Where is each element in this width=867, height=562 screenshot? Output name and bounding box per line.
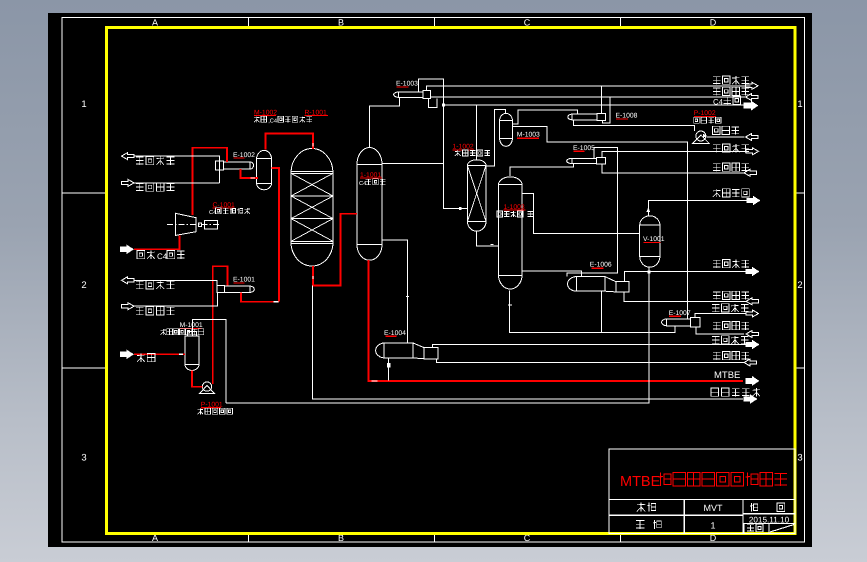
tank M-1001 bottom dome <box>185 364 199 370</box>
label 循环回水 right 4 <box>712 304 720 306</box>
column T-1002 <box>466 165 468 221</box>
red pipe T-1001 bottoms MTBE <box>368 260 743 381</box>
pipe E-1006 head to V-1001 bottoms and return header <box>624 272 746 282</box>
label 循环给水 right 2 <box>713 163 721 165</box>
svg-text:3: 3 <box>81 453 86 464</box>
label M-1003 underline <box>517 137 539 139</box>
label M-1002/R-1001 desc 甲醇,C4馏分混合器 <box>256 116 258 122</box>
pipe E-1005 cooling supply <box>602 164 744 173</box>
arrow 混合C4馏分 feed <box>121 245 134 253</box>
pipe E-1007 head top cooling <box>695 314 746 318</box>
node dot on T-1002 feed <box>459 207 462 210</box>
heat exchanger E-1008 <box>572 114 597 120</box>
label 循环给水 right 1 <box>713 87 721 89</box>
pump P-1002 casing <box>696 131 706 141</box>
label R-1001 underline <box>305 115 329 117</box>
heat exchanger E-1002 <box>224 162 250 169</box>
reactor R-1001 packing band3 <box>291 219 333 242</box>
pipe E-1003 cooling return <box>427 86 751 90</box>
label 循环给水 right 3 <box>713 291 721 293</box>
title block divider date row <box>743 513 795 515</box>
title cell 比例 <box>747 524 754 526</box>
pipe T-1003 bottoms <box>510 290 676 332</box>
zone tick left <box>62 192 107 194</box>
arrow 循环给水 right 2 <box>744 169 757 176</box>
white tick on E-1004 inlet <box>406 296 409 298</box>
white break tick on T-1002 bottoms <box>491 243 494 245</box>
arrow 循环给水 right 3 <box>746 298 759 305</box>
white break tick on MTBE line <box>372 380 378 382</box>
red pipe C4 feed to compressor <box>134 235 180 249</box>
label 软化水 <box>713 126 721 134</box>
svg-text:D: D <box>710 18 717 28</box>
tank M-1001 collar <box>188 332 197 337</box>
label E-1005 underline <box>574 150 585 152</box>
pump P-1002 base <box>693 135 710 143</box>
pipe cooling water supply E-1002 <box>134 182 220 184</box>
label T-1003 desc 共沸精馏塔 <box>497 211 503 217</box>
label V-1001 underline <box>644 241 661 243</box>
svg-text:C4: C4 <box>209 210 216 216</box>
pipe E-1004 outlet to MTBE line <box>388 358 390 381</box>
pipe E-1007 head bottom cooling <box>696 327 744 334</box>
red pipe compressor discharge to E-1002 <box>193 148 228 215</box>
zone tick right <box>795 367 805 369</box>
heat exchanger E-1004 taper <box>413 343 424 348</box>
yellow drawing border <box>107 28 796 534</box>
arrow MTBE <box>746 377 759 385</box>
red pipe R-1001 bottoms to T-1001 feed <box>313 214 357 286</box>
pipe E-1003 shell top jog <box>418 79 467 209</box>
heat exchanger E-1004 cap <box>376 343 384 358</box>
zone tick top <box>620 18 622 28</box>
svg-text:MTBE: MTBE <box>714 370 740 381</box>
heat exchanger E-1004 head box <box>424 348 438 359</box>
title block outline <box>609 449 795 534</box>
pipe V-1001 overhead methanol <box>648 201 747 216</box>
reactor R-1001 packing band1 <box>291 195 333 197</box>
pipe E-1003 cooling supply <box>431 96 746 98</box>
label 循环回水 right 2 <box>713 144 721 146</box>
heat exchanger E-1003 <box>398 92 422 98</box>
arrow 循环给水 left top <box>122 179 135 186</box>
arrow 循环回水 right 2 <box>746 148 759 155</box>
svg-text:A: A <box>152 18 158 28</box>
arrow 循环给水 right 1 <box>746 93 759 100</box>
svg-text:1: 1 <box>797 99 802 110</box>
pipe T-1001 side to E-1003 riser <box>382 163 443 165</box>
svg-text:MVT: MVT <box>704 503 724 513</box>
title cell 设计 <box>640 503 642 512</box>
label M-1001 underline <box>180 328 202 330</box>
svg-text:M-1003: M-1003 <box>517 132 540 139</box>
tank M-1001 body <box>185 336 199 364</box>
svg-text:E-1006: E-1006 <box>590 262 612 269</box>
title block diagonal <box>770 525 794 533</box>
reactor R-1001 shell <box>290 173 292 242</box>
label E-1007 underline <box>669 315 681 317</box>
pipe catalyst replacement <box>312 286 743 400</box>
arrow 循环回水 left top <box>122 153 135 160</box>
arrow 甲醇 feed <box>121 350 134 358</box>
label E-1004 underline <box>385 335 396 337</box>
column T-1003 <box>497 185 499 276</box>
compressor C-1001 centerline <box>167 224 221 226</box>
arrow C4出料 <box>744 101 758 109</box>
pipe E-1006 head bottom cooling <box>624 292 746 301</box>
pipe T-1003 overhead to E-1005 <box>510 164 574 176</box>
pump P-1002 discharge tick <box>703 134 707 138</box>
pipe cooling water return E-1001 <box>134 280 217 285</box>
svg-text:V-1001: V-1001 <box>643 236 665 243</box>
red pipe M-1002 side to E-1001 loop <box>272 168 279 302</box>
label T-1002 desc 甲醇分离塔 <box>457 150 459 156</box>
label 循环回水 right 3 <box>713 259 721 261</box>
label 催化剂更换 <box>711 388 719 396</box>
compressor C-1001 shaft <box>198 223 201 227</box>
arrow 催化剂更换 <box>744 395 757 403</box>
red pipe M-1002 to R-1001 <box>266 134 314 150</box>
node dot on V-1001 bottoms <box>647 271 650 274</box>
white break tick on R-1001 bottoms <box>312 276 314 279</box>
zone tick bottom <box>248 534 250 543</box>
zone tick top <box>248 18 250 28</box>
pipe E-1005 cooling return <box>602 151 746 157</box>
pipe branch to T-1002 top <box>476 105 478 160</box>
arrow 循环回水 right 1 <box>746 82 759 89</box>
zone tick bottom <box>620 534 622 543</box>
heat exchanger E-1006 cap <box>568 277 577 292</box>
title block divider col2 <box>742 500 744 534</box>
white break tick on E-1001 outlet <box>274 301 279 303</box>
label P-1001 underline <box>201 407 221 409</box>
svg-text:3: 3 <box>797 453 802 464</box>
heat exchanger E-1006 taper <box>605 277 616 282</box>
pipe cooling water return E-1002 <box>134 156 220 183</box>
heat exchanger E-1004 shell <box>384 343 413 358</box>
red pipe E-1002 to M-1002 <box>241 169 259 178</box>
pipe C4 product line <box>443 104 744 106</box>
pipe E-1004 cooling return <box>433 345 747 348</box>
svg-text:B: B <box>338 18 344 28</box>
arrow 循环给水 right 4 <box>746 330 759 337</box>
svg-text:C: C <box>524 18 531 28</box>
arrow 软化水 <box>746 133 759 140</box>
label M-1002 underline <box>254 115 276 117</box>
heat exchanger E-1001 <box>225 286 250 292</box>
label 循环给水 right 4 <box>713 321 721 323</box>
pipe E-1008 outlet to P-1002 <box>574 120 695 131</box>
pipe M-1003 liquid line <box>512 126 687 319</box>
pipe T-1002 overhead to M-1003 <box>486 109 506 166</box>
label 1-1002 underline <box>453 149 475 151</box>
svg-text:1: 1 <box>710 521 715 531</box>
label M-1001 desc 甲醇进料缓冲罐 <box>162 329 164 335</box>
node dot on C4 line junction <box>442 104 445 107</box>
label E-1006 underline <box>591 267 603 269</box>
drum M-1003 <box>499 121 501 139</box>
arrow 循环回水 right 4 <box>746 310 759 317</box>
valve marker on E-1004 outlet <box>387 363 390 368</box>
arrow 循环回水 right 5 <box>746 341 759 349</box>
svg-text:C4: C4 <box>359 181 366 187</box>
white break tick on methanol feed <box>179 353 183 355</box>
title cell 日 期 <box>750 503 752 512</box>
compressor C-1001 body <box>176 213 197 235</box>
label 循环回水 left top <box>136 156 144 158</box>
svg-text:2: 2 <box>797 280 802 291</box>
flow arrowhead on V-1001 overhead <box>646 208 650 213</box>
label 循环给水 left top <box>136 183 144 185</box>
zone tick right <box>795 192 805 194</box>
vessel V-1001 <box>639 225 641 256</box>
pipe E-1004 cooling supply <box>437 359 745 363</box>
label 循环回水 left mid <box>136 280 144 282</box>
pipe branch to E-1008 head bottom <box>602 97 610 123</box>
heat exchanger E-1006 shell <box>577 277 606 292</box>
red pipe P-1001 discharge over E-1001 <box>213 266 228 384</box>
heat exchanger E-1005 <box>572 158 597 163</box>
label 1-1001 underline <box>360 177 382 179</box>
label 混合C4馏分 <box>137 250 145 258</box>
pipe V-1001 bottoms <box>226 267 649 403</box>
red pipe methanol feed to M-1001 <box>134 353 185 355</box>
label 循环回水 right 5 <box>712 336 720 338</box>
label E-1008 underline <box>616 118 628 120</box>
pipe T-1003 side to E-1006 <box>522 271 582 277</box>
label E-1003 underline <box>397 86 409 88</box>
pipe T-1001 side to E-1004 <box>382 240 408 343</box>
arrow 循环回水 right 3 <box>746 268 759 276</box>
red pipe M-1001 to P-1001 <box>192 370 202 386</box>
reactor R-1001 packing band2 <box>291 218 333 220</box>
reactor R-1001 top weld lines <box>291 170 333 172</box>
column T-1001 <box>356 164 358 244</box>
label P-1002 underline <box>694 115 716 117</box>
label P-1001 desc 甲醇进料泵 <box>200 408 202 414</box>
zone tick top <box>434 18 436 28</box>
pipe T-1002 bottoms to T-1003 <box>477 231 499 246</box>
column T-1002 packing X <box>467 165 486 221</box>
pipe E-1005 outlet down <box>567 148 618 277</box>
label 甲醇出料 <box>716 189 718 197</box>
arrow 甲醇出料 <box>747 197 760 205</box>
svg-text:C4: C4 <box>713 97 724 106</box>
svg-text:1: 1 <box>81 99 86 110</box>
svg-text:MTBE: MTBE <box>620 474 661 490</box>
heat exchanger E-1007 <box>666 319 690 326</box>
label 循环给水 left mid <box>136 306 144 308</box>
pipe M-1003 vapor to E-1008 <box>512 110 577 124</box>
label E-1002 underline <box>233 157 244 159</box>
title block divider scale row <box>743 523 795 525</box>
arrow 循环给水 right 5 <box>744 359 757 366</box>
label P-1002 desc 软化水泵 <box>694 117 700 123</box>
compressor C-1001 motor <box>204 221 217 229</box>
svg-text:C4: C4 <box>157 252 168 261</box>
pipe E-1003 head bottom loop <box>429 98 438 107</box>
pipe M-1001 vent <box>192 319 225 403</box>
arrow 循环给水 left mid <box>122 303 135 310</box>
white break tick on T-1003 bottoms <box>508 304 512 306</box>
white break tick on E-1002 outlet <box>251 177 256 179</box>
pipe branch to E-1008 head top <box>601 86 603 113</box>
white break tick on R-1001 inlet <box>312 143 314 146</box>
zone tick left <box>62 367 107 369</box>
pipe T-1001 overhead to E-1003 <box>370 97 400 147</box>
label 甲醇 <box>140 353 142 361</box>
red pipe E-1001 outlet <box>241 292 279 301</box>
svg-text:,C4: ,C4 <box>268 118 277 124</box>
label E-1001 underline <box>233 282 244 284</box>
title block divider row2 <box>609 514 743 516</box>
label C-1001 underline <box>213 207 235 209</box>
title cell 比例 box <box>744 524 769 534</box>
heat exchanger E-1006 head box <box>616 282 629 292</box>
label 1-1003 underline <box>504 209 526 211</box>
pump P-1001 casing <box>202 382 211 391</box>
pump P-1001 base <box>200 386 215 394</box>
title block divider col1 <box>683 500 685 534</box>
label 循环回水 right 1 <box>713 76 721 78</box>
reactor R-1001 bottom weld lines <box>291 240 333 242</box>
svg-text:2: 2 <box>81 280 86 291</box>
arrow 循环回水 left mid <box>122 277 135 284</box>
title block divider row1 <box>609 499 795 501</box>
pipe cooling water supply E-1001 <box>134 292 218 306</box>
label 循环给水 right 5 <box>713 351 721 353</box>
pipe T-1003 side to V-1001 <box>522 194 640 234</box>
zone tick bottom <box>434 534 436 543</box>
title cell 图 号 <box>636 520 644 522</box>
pipe P-1002 soft water <box>707 136 745 138</box>
pipe E-1006 shell bottom branch <box>600 291 602 332</box>
mixer M-1002 drum <box>256 159 258 184</box>
